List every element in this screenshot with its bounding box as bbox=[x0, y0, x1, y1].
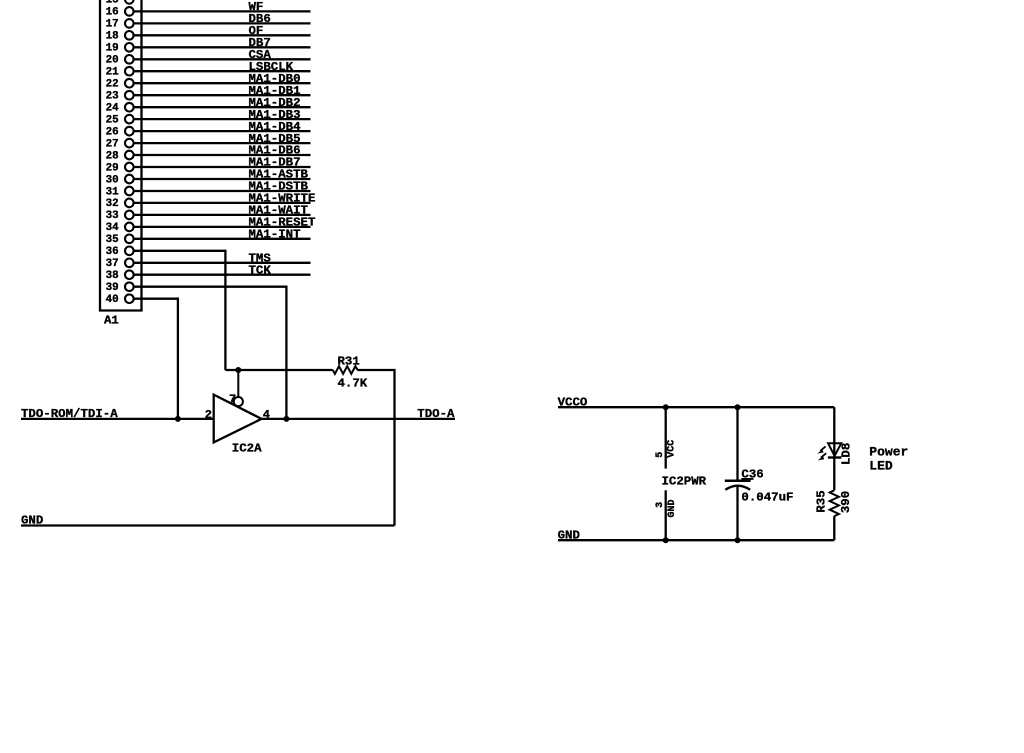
resistor R35 bbox=[815, 490, 853, 540]
svg-text:GND: GND bbox=[21, 514, 43, 528]
pin 35 bbox=[106, 234, 134, 246]
pin 18 bbox=[106, 31, 134, 43]
svg-text:LED: LED bbox=[869, 459, 893, 474]
svg-text:19: 19 bbox=[106, 43, 119, 55]
svg-text:390: 390 bbox=[839, 491, 853, 513]
IC2PWR VCC pin wire bbox=[655, 407, 678, 468]
pin 36 bbox=[106, 246, 134, 258]
pin 28 bbox=[106, 150, 134, 162]
pin 20 bbox=[106, 55, 134, 67]
pin 32 bbox=[106, 198, 134, 210]
svg-text:31: 31 bbox=[106, 186, 120, 198]
pin 16 bbox=[106, 7, 134, 19]
svg-text:27: 27 bbox=[106, 138, 119, 150]
svg-text:Power: Power bbox=[869, 445, 908, 460]
pin 25 bbox=[106, 114, 134, 126]
pin 26 bbox=[106, 126, 134, 138]
junction at pin39/output bbox=[283, 416, 289, 422]
enable bubble bbox=[234, 397, 243, 406]
wire pin 23 net MA1-DB1 bbox=[134, 84, 311, 98]
net VCCO rail bbox=[558, 395, 835, 409]
svg-text:38: 38 bbox=[106, 270, 119, 282]
op-amp buffer IC2A triangle bbox=[214, 395, 262, 443]
pin 33 bbox=[106, 210, 134, 222]
svg-text:15: 15 bbox=[106, 0, 119, 7]
wire pin 22 net MA1-DB0 bbox=[134, 72, 311, 86]
svg-text:17: 17 bbox=[106, 19, 119, 31]
svg-text:34: 34 bbox=[106, 222, 120, 234]
svg-text:TDO-A: TDO-A bbox=[417, 407, 455, 421]
pin 19 bbox=[106, 43, 134, 55]
svg-text:C36: C36 bbox=[741, 467, 763, 481]
svg-text:2: 2 bbox=[205, 408, 212, 422]
pin 24 bbox=[106, 103, 134, 115]
svg-text:39: 39 bbox=[106, 282, 119, 294]
svg-text:7: 7 bbox=[229, 392, 236, 406]
junction enable stem bbox=[235, 367, 241, 373]
svg-text:30: 30 bbox=[106, 174, 119, 186]
net GND rail right bbox=[558, 528, 835, 542]
connector A1 body bbox=[100, 0, 142, 311]
svg-text:R31: R31 bbox=[338, 355, 360, 369]
wire R31 to pulldown vertical bbox=[358, 370, 395, 526]
svg-text:35: 35 bbox=[106, 234, 119, 246]
label Power LED bbox=[869, 445, 908, 474]
svg-text:R35: R35 bbox=[815, 490, 829, 512]
svg-text:3: 3 bbox=[655, 502, 666, 508]
pin 31 bbox=[106, 186, 134, 198]
wire pin 29 net MA1-DB7 bbox=[134, 156, 311, 170]
pin 22 bbox=[106, 79, 134, 91]
svg-text:IC2PWR: IC2PWR bbox=[662, 474, 707, 488]
svg-text:28: 28 bbox=[106, 150, 119, 162]
svg-text:23: 23 bbox=[106, 91, 119, 103]
wire pin 28 net MA1-DB6 bbox=[134, 144, 311, 158]
wire pin 16 net WF bbox=[134, 0, 311, 14]
svg-text:36: 36 bbox=[106, 246, 119, 258]
svg-text:MA1-INT: MA1-INT bbox=[249, 228, 302, 242]
wire pin 36 to buffer enable bbox=[134, 251, 226, 370]
svg-text:VCCO: VCCO bbox=[558, 395, 588, 409]
svg-text:GND: GND bbox=[667, 499, 678, 517]
pin 40 bbox=[106, 294, 134, 306]
pin 17 bbox=[106, 19, 134, 31]
wire pin 39 to TDO-A node bbox=[134, 287, 287, 419]
wire pin 26 net MA1-DB4 bbox=[134, 120, 311, 134]
svg-text:VCC: VCC bbox=[666, 440, 677, 458]
wire pin 17 net DB6 bbox=[134, 12, 311, 26]
net GND wire left bbox=[21, 514, 395, 528]
svg-text:37: 37 bbox=[106, 258, 119, 270]
svg-text:40: 40 bbox=[106, 294, 119, 306]
svg-text:IC2A: IC2A bbox=[232, 442, 262, 456]
wire pin 38 net TCK bbox=[134, 263, 311, 277]
svg-text:LD8: LD8 bbox=[839, 443, 853, 465]
pin 34 bbox=[106, 222, 134, 234]
svg-text:21: 21 bbox=[106, 67, 120, 79]
svg-text:TCK: TCK bbox=[249, 263, 272, 277]
svg-text:5: 5 bbox=[655, 452, 666, 458]
svg-text:GND: GND bbox=[558, 528, 580, 542]
svg-text:16: 16 bbox=[106, 7, 119, 19]
junction VCCO/IC2PWR bbox=[663, 404, 669, 410]
wire pin 31 net MA1-DSTB bbox=[134, 180, 311, 194]
net TDO-A wire bbox=[262, 407, 456, 421]
wire pin 37 net TMS bbox=[134, 252, 311, 266]
wire pin 34 net MA1-RESET bbox=[134, 216, 316, 230]
wire pin 25 net MA1-DB3 bbox=[134, 108, 311, 122]
pin 38 bbox=[106, 270, 134, 282]
wire pin 33 net MA1-WAIT bbox=[134, 204, 311, 218]
pin 29 bbox=[106, 162, 134, 174]
junction GND/C36 bbox=[735, 537, 741, 543]
pin 15 bbox=[106, 0, 134, 7]
pin 23 bbox=[106, 91, 134, 103]
enable stem wire bbox=[237, 370, 239, 398]
junction GND/IC2PWR bbox=[663, 537, 669, 543]
junction at pin40/input bbox=[175, 416, 181, 422]
LED LD8 bbox=[817, 407, 853, 490]
net TDO-ROM/TDI-A wire bbox=[21, 407, 214, 421]
svg-text:A1: A1 bbox=[104, 313, 119, 327]
IC2PWR GND pin wire bbox=[655, 490, 678, 540]
svg-text:33: 33 bbox=[106, 210, 119, 222]
svg-text:18: 18 bbox=[106, 31, 119, 43]
svg-text:0.047uF: 0.047uF bbox=[741, 491, 793, 505]
pin 27 bbox=[106, 138, 134, 150]
svg-text:29: 29 bbox=[106, 162, 119, 174]
wire pin 32 net MA1-WRITE bbox=[134, 192, 316, 206]
pin 39 bbox=[106, 282, 134, 294]
wire pin 20 net CSA bbox=[134, 48, 311, 62]
wire pin 24 net MA1-DB2 bbox=[134, 96, 311, 110]
capacitor C36 bbox=[725, 407, 794, 540]
junction VCCO/C36 bbox=[735, 404, 741, 410]
svg-text:TDO-ROM/TDI-A: TDO-ROM/TDI-A bbox=[21, 407, 118, 421]
svg-text:32: 32 bbox=[106, 198, 119, 210]
pin 37 bbox=[106, 258, 134, 270]
svg-text:20: 20 bbox=[106, 55, 119, 67]
svg-text:26: 26 bbox=[106, 126, 119, 138]
svg-text:4.7K: 4.7K bbox=[338, 377, 368, 391]
wire pin 30 net MA1-ASTB bbox=[134, 168, 311, 182]
wire pin 27 net MA1-DB5 bbox=[134, 132, 311, 146]
wire pin 21 net LSBCLK bbox=[134, 60, 311, 74]
resistor R31 bbox=[333, 355, 368, 391]
wire pin 18 net OF bbox=[134, 24, 311, 38]
pin 30 bbox=[106, 174, 134, 186]
wire pin 19 net DB7 bbox=[134, 36, 311, 50]
svg-text:24: 24 bbox=[106, 103, 120, 115]
wire pin 35 net MA1-INT bbox=[134, 228, 311, 242]
svg-text:25: 25 bbox=[106, 114, 119, 126]
wire enable to R31 bbox=[225, 369, 332, 371]
pin 21 bbox=[106, 67, 134, 79]
svg-text:22: 22 bbox=[106, 79, 119, 91]
wire pin 40 to TDI node bbox=[134, 299, 178, 419]
